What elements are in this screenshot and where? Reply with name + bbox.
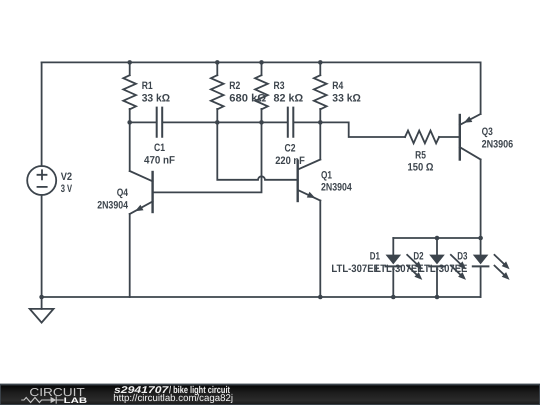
wire Q3 emitter from top rail bbox=[480, 62, 482, 114]
svg-text:Q3: Q3 bbox=[482, 126, 493, 138]
svg-text:2N3906: 2N3906 bbox=[482, 138, 514, 150]
svg-text:LTL-307EE: LTL-307EE bbox=[419, 263, 468, 275]
label D2 bbox=[375, 251, 424, 275]
resistor R5 bbox=[405, 131, 460, 144]
node D2 top bbox=[435, 236, 440, 241]
wire Q4 emitter down bbox=[129, 214, 131, 297]
node R3 bottom bbox=[259, 120, 264, 125]
voltage source V2 bbox=[27, 166, 56, 195]
wire R2 node to Q1 base (hop) bbox=[217, 122, 297, 179]
label C2 bbox=[275, 143, 305, 168]
LED D1 bbox=[386, 238, 423, 297]
node Q1 emitter bottom bbox=[318, 295, 323, 300]
wire Q3 collector down bbox=[480, 160, 482, 239]
label R1 bbox=[142, 80, 171, 104]
wire left rail upper bbox=[41, 62, 43, 165]
wire Q4 collector from node bbox=[129, 122, 131, 171]
node ground junction bbox=[39, 295, 44, 300]
transistor Q3 bbox=[460, 114, 481, 160]
node D2 bottom bbox=[435, 295, 440, 300]
svg-text:LAB: LAB bbox=[64, 396, 88, 405]
label Q3 bbox=[482, 126, 514, 150]
transistor Q4 bbox=[130, 171, 153, 214]
svg-text:C2: C2 bbox=[285, 143, 296, 155]
wire bottom rail bbox=[42, 296, 481, 298]
wire Q4 base to R3 node bbox=[153, 122, 262, 192]
node R3 top bbox=[259, 60, 264, 65]
svg-text:D2: D2 bbox=[413, 251, 423, 263]
label V2 value bbox=[61, 171, 73, 195]
label D3 bbox=[419, 251, 468, 275]
svg-text:2N3904: 2N3904 bbox=[97, 199, 128, 211]
svg-text:150 Ω: 150 Ω bbox=[408, 162, 434, 174]
wire R2-R3 node link bbox=[217, 121, 261, 123]
resistor R3 bbox=[255, 62, 268, 122]
label R3 bbox=[274, 80, 304, 104]
node R1 bottom bbox=[127, 120, 132, 125]
svg-text:C1: C1 bbox=[154, 142, 165, 154]
node D1 bottom bbox=[391, 295, 396, 300]
svg-text:2N3904: 2N3904 bbox=[321, 182, 352, 194]
logo CIRCUIT text bbox=[29, 387, 84, 399]
svg-text:Q4: Q4 bbox=[117, 187, 128, 199]
node R4 top bbox=[318, 60, 323, 65]
label Q4 bbox=[97, 187, 128, 211]
svg-text:R1: R1 bbox=[142, 80, 153, 92]
capacitor C1 bbox=[130, 108, 218, 137]
svg-text:3 V: 3 V bbox=[61, 183, 73, 195]
label R2 bbox=[229, 80, 266, 104]
label D1 bbox=[331, 251, 380, 275]
logo LAB text bbox=[64, 396, 88, 405]
svg-text:R2: R2 bbox=[229, 80, 240, 92]
svg-text:Q1: Q1 bbox=[321, 169, 332, 181]
svg-text:82 kΩ: 82 kΩ bbox=[274, 92, 304, 104]
wire top rail bbox=[42, 61, 481, 63]
node D3 top bbox=[478, 236, 483, 241]
node R1 top bbox=[127, 60, 132, 65]
label C1 bbox=[144, 142, 175, 167]
wire Q1 collector from node bbox=[319, 122, 321, 159]
node R2 top bbox=[215, 60, 220, 65]
wire Q1 emitter down bbox=[319, 201, 321, 298]
svg-text:LTL-307EE: LTL-307EE bbox=[331, 263, 380, 275]
svg-text:http://circuitlab.com/caga82j: http://circuitlab.com/caga82j bbox=[113, 393, 233, 404]
wire LED top bus bbox=[393, 237, 480, 239]
footer title line bbox=[114, 385, 231, 396]
LED D3 bbox=[473, 238, 510, 297]
wire left rail lower bbox=[41, 195, 43, 297]
resistor R4 bbox=[314, 62, 327, 122]
node R2 bottom bbox=[215, 120, 220, 125]
svg-text:33 kΩ: 33 kΩ bbox=[332, 92, 361, 104]
resistor R2 bbox=[211, 62, 224, 122]
svg-text:470 nF: 470 nF bbox=[144, 155, 175, 167]
node R4 bottom bbox=[318, 120, 323, 125]
wire R4 node to R5 bbox=[320, 122, 405, 137]
svg-text:D3: D3 bbox=[457, 251, 467, 263]
svg-text:R4: R4 bbox=[332, 80, 343, 92]
svg-text:33 kΩ: 33 kΩ bbox=[142, 92, 171, 104]
footer url line bbox=[113, 393, 233, 404]
label R4 bbox=[332, 80, 361, 104]
svg-text:D1: D1 bbox=[370, 251, 380, 263]
ground bbox=[30, 297, 54, 323]
footer bar bbox=[0, 385, 540, 405]
svg-text:V2: V2 bbox=[61, 171, 72, 183]
label R5 bbox=[408, 150, 434, 174]
resistor R1 bbox=[123, 62, 136, 122]
label Q1 bbox=[321, 169, 352, 193]
svg-text:R3: R3 bbox=[274, 80, 285, 92]
logo schematic squiggle bbox=[22, 397, 63, 403]
svg-text:R5: R5 bbox=[415, 150, 426, 162]
capacitor C2 bbox=[262, 108, 321, 137]
transistor Q1 bbox=[298, 160, 321, 202]
svg-text:LTL-307EE: LTL-307EE bbox=[375, 263, 424, 275]
LED D2 bbox=[429, 238, 466, 297]
svg-text:220 nF: 220 nF bbox=[275, 155, 305, 167]
